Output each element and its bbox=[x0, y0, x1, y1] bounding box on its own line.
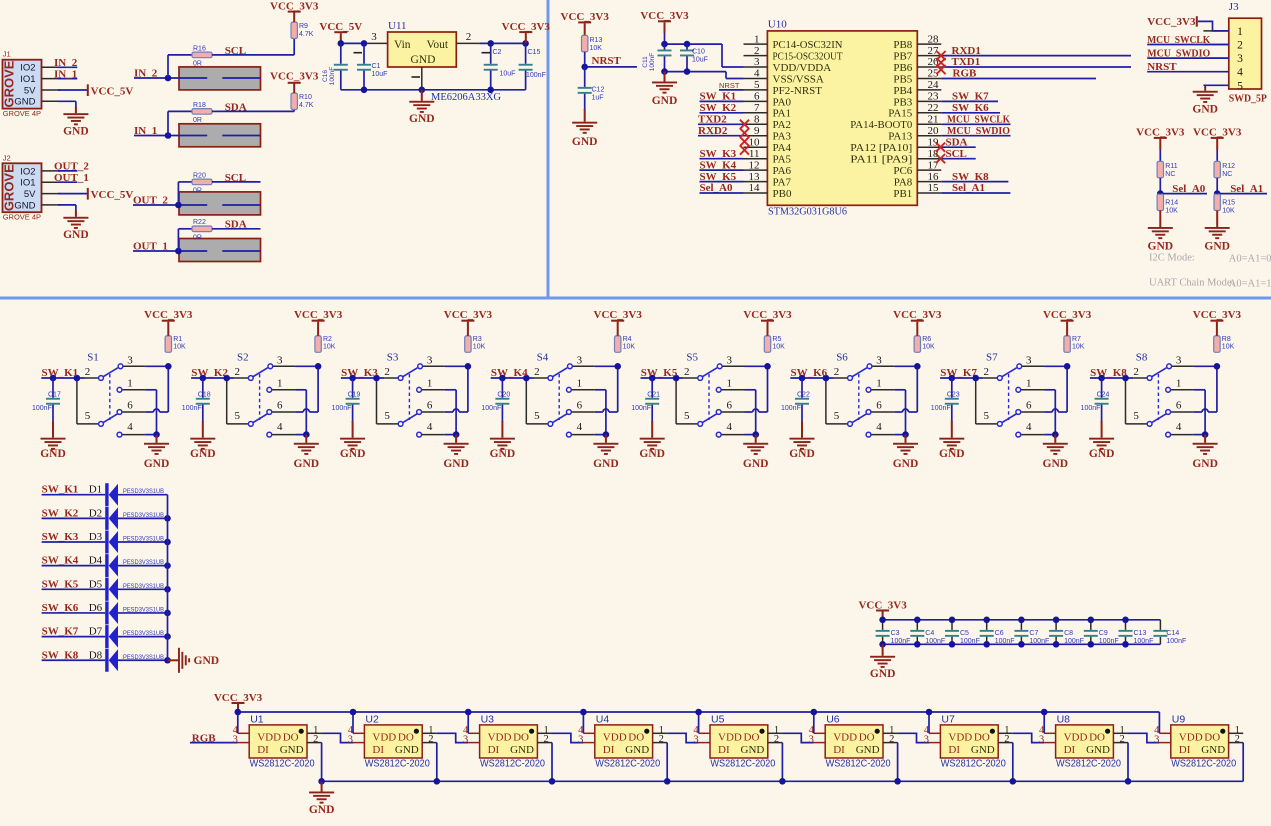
svg-text:GND: GND bbox=[409, 113, 435, 125]
svg-text:100nF: 100nF bbox=[781, 405, 801, 412]
resistor R8 10K bbox=[1214, 336, 1220, 352]
svg-text:VCC_3V3: VCC_3V3 bbox=[1147, 16, 1196, 28]
svg-text:2: 2 bbox=[684, 366, 690, 378]
svg-text:2: 2 bbox=[754, 45, 760, 57]
wire VDD bbox=[665, 43, 723, 45]
svg-text:10K: 10K bbox=[590, 45, 603, 52]
power VCC_3V3 at R6 bbox=[916, 322, 918, 336]
svg-text:GND: GND bbox=[743, 458, 769, 470]
wire VSS bbox=[665, 71, 727, 73]
junction OUT_1 bbox=[175, 248, 182, 255]
pin GND of U11 bbox=[421, 67, 423, 90]
capacitor C18 100nF bbox=[202, 378, 204, 398]
svg-text:U6: U6 bbox=[826, 714, 840, 726]
capacitor C9 100nF bbox=[1090, 620, 1092, 630]
svg-text:GND: GND bbox=[572, 136, 598, 148]
pin 18 of U10 PA11 [PA9] bbox=[917, 158, 941, 160]
svg-text:12: 12 bbox=[749, 159, 760, 171]
svg-text:C16: C16 bbox=[322, 70, 329, 82]
svg-text:GND: GND bbox=[294, 458, 320, 470]
resistor R1 10K bbox=[165, 336, 171, 352]
svg-text:PC6: PC6 bbox=[893, 165, 912, 177]
svg-text:NRST: NRST bbox=[719, 81, 740, 90]
svg-text:7: 7 bbox=[754, 102, 760, 114]
connector J1 GROVE 4P bbox=[1, 50, 60, 118]
svg-text:2: 2 bbox=[1133, 366, 1139, 378]
svg-text:PA0: PA0 bbox=[773, 96, 792, 108]
svg-text:100nF: 100nF bbox=[1134, 638, 1154, 645]
wire VCC to U1 bbox=[237, 712, 239, 733]
svg-text:10K: 10K bbox=[473, 344, 486, 351]
svg-text:6: 6 bbox=[127, 400, 133, 412]
svg-text:R20: R20 bbox=[193, 172, 206, 179]
led U6 WS2812C-2020 bbox=[809, 725, 898, 770]
svg-text:1: 1 bbox=[277, 377, 283, 389]
svg-text:UART Chain Mode:: UART Chain Mode: bbox=[1149, 278, 1235, 289]
ground at S3 pin4 bbox=[455, 435, 457, 443]
wire VCC to U7 bbox=[928, 712, 930, 733]
wire U2 GND down bbox=[436, 743, 438, 782]
svg-text:J2: J2 bbox=[3, 153, 11, 162]
ground at S2 pin4 bbox=[305, 435, 307, 443]
svg-text:R18: R18 bbox=[193, 102, 206, 109]
svg-text:R4: R4 bbox=[623, 336, 632, 343]
svg-text:24: 24 bbox=[928, 79, 940, 91]
wire U5 GND down bbox=[781, 743, 783, 782]
diode D8 PESD3V3S1UB bbox=[105, 649, 118, 672]
svg-text:10uF: 10uF bbox=[500, 71, 516, 78]
junction C8 bbox=[1053, 617, 1060, 624]
pin 5 of U10 PF2-NRST bbox=[744, 89, 768, 91]
svg-text:J3: J3 bbox=[1229, 1, 1239, 13]
wire SW_K1 to D1 bbox=[42, 494, 106, 496]
svg-text:1: 1 bbox=[1026, 377, 1032, 389]
wire D5 anode bbox=[118, 588, 168, 590]
ground at S7 pin4 bbox=[1054, 435, 1056, 443]
junction D6 bbox=[164, 610, 171, 617]
svg-text:PA1: PA1 bbox=[773, 108, 792, 120]
power VCC_3V3 at R7 bbox=[1066, 322, 1068, 336]
resistor R18 0R bbox=[192, 109, 212, 115]
resistor R6 10K bbox=[914, 336, 920, 352]
svg-text:0R: 0R bbox=[193, 188, 202, 195]
wire U8 GND down bbox=[1127, 743, 1129, 782]
wire D6 anode bbox=[118, 612, 168, 614]
svg-text:16: 16 bbox=[928, 171, 940, 183]
wire NRST bbox=[719, 89, 744, 91]
svg-text:U7: U7 bbox=[941, 714, 955, 726]
svg-text:GND: GND bbox=[190, 448, 216, 460]
jumper pad IN_2 bbox=[179, 67, 261, 90]
svg-text:S2: S2 bbox=[237, 352, 249, 364]
svg-text:4: 4 bbox=[1237, 67, 1243, 79]
pin 2 of U11 bbox=[456, 42, 479, 44]
led U4 WS2812C-2020 bbox=[578, 725, 667, 770]
svg-text:GND: GND bbox=[593, 458, 619, 470]
resistor R10 4.7K bbox=[291, 93, 297, 109]
svg-text:PA5: PA5 bbox=[773, 154, 792, 166]
power VCC_3V3 at R3 bbox=[467, 322, 469, 336]
led U1 WS2812C-2020 bbox=[233, 725, 322, 770]
svg-text:100nF: 100nF bbox=[891, 638, 911, 645]
wire Sel_A1 bbox=[1217, 193, 1267, 195]
svg-text:VCC_3V3: VCC_3V3 bbox=[640, 10, 689, 22]
wire NRST bbox=[585, 66, 637, 68]
svg-text:100nF: 100nF bbox=[960, 638, 980, 645]
wire J2 GND bbox=[58, 204, 76, 206]
svg-text:STM32G031G8U6: STM32G031G8U6 bbox=[768, 205, 847, 217]
power VCC_3V3 at R2 bbox=[317, 322, 319, 336]
svg-text:GND: GND bbox=[893, 458, 919, 470]
svg-text:R10: R10 bbox=[299, 94, 312, 101]
svg-text:PA13: PA13 bbox=[888, 131, 913, 143]
svg-text:D7: D7 bbox=[89, 626, 103, 638]
svg-text:VCC_5V: VCC_5V bbox=[91, 189, 134, 201]
pin 4 of J3 bbox=[1203, 71, 1228, 73]
svg-text:6: 6 bbox=[1026, 400, 1032, 412]
svg-text:A0=A1=1: A0=A1=1 bbox=[1229, 279, 1271, 290]
pin 12 of U10 PA6 bbox=[744, 169, 768, 171]
svg-text:VCC_3V3: VCC_3V3 bbox=[144, 309, 193, 321]
svg-text:4: 4 bbox=[1026, 421, 1032, 433]
wire TXD1 bbox=[941, 66, 1131, 68]
svg-text:U1: U1 bbox=[250, 714, 264, 726]
svg-text:6: 6 bbox=[277, 400, 283, 412]
pin 3 of U10 VDD/VDDA bbox=[744, 66, 768, 68]
svg-text:GND: GND bbox=[490, 448, 516, 460]
resistor R14 10K bbox=[1157, 194, 1163, 210]
wire OUT_1 bbox=[133, 250, 207, 252]
svg-text:PA11 [PA9]: PA11 [PA9] bbox=[850, 154, 912, 166]
resistor R11 NC bbox=[1157, 161, 1163, 177]
svg-text:NC: NC bbox=[1222, 171, 1232, 178]
svg-text:SW_K3: SW_K3 bbox=[341, 367, 378, 379]
svg-text:0R: 0R bbox=[193, 61, 202, 68]
capacitor C20 100nF bbox=[501, 378, 503, 398]
switch S7 bbox=[940, 363, 1070, 438]
svg-text:GND: GND bbox=[411, 54, 436, 66]
wire Sel_A0 bbox=[700, 192, 744, 194]
svg-text:1: 1 bbox=[1176, 377, 1182, 389]
svg-text:C11: C11 bbox=[642, 56, 649, 68]
pin 2 of U10 PC15-OSC32OUT bbox=[744, 55, 768, 57]
svg-text:VCC_3V3: VCC_3V3 bbox=[594, 309, 643, 321]
ground at S4 pin4 bbox=[605, 435, 607, 443]
svg-text:I2C Mode:: I2C Mode: bbox=[1149, 252, 1195, 263]
resistor R22 0R bbox=[192, 226, 212, 232]
svg-text:OUT_2: OUT_2 bbox=[54, 161, 89, 173]
capacitor C22 100nF bbox=[801, 378, 803, 398]
svg-text:4: 4 bbox=[577, 421, 583, 433]
ground at J1 bbox=[75, 107, 77, 113]
svg-text:C10: C10 bbox=[692, 49, 705, 56]
wire Vout rail bbox=[479, 42, 525, 44]
svg-text:10K: 10K bbox=[1222, 344, 1235, 351]
svg-text:100nF: 100nF bbox=[1099, 638, 1119, 645]
svg-text:15: 15 bbox=[928, 182, 940, 194]
ground at S1 pin4 bbox=[156, 435, 158, 443]
switch S6 bbox=[790, 363, 920, 438]
svg-text:GND: GND bbox=[1192, 458, 1218, 470]
svg-text:GND: GND bbox=[63, 126, 89, 138]
svg-text:C3: C3 bbox=[891, 630, 900, 637]
junction C3 bbox=[879, 617, 886, 624]
diode D4 PESD3V3S1UB bbox=[105, 554, 118, 577]
svg-text:PA7: PA7 bbox=[773, 177, 792, 189]
svg-text:100nF: 100nF bbox=[332, 405, 352, 412]
wire Sel_A1 bbox=[941, 192, 1010, 194]
wire SW_K3 bbox=[700, 158, 744, 160]
svg-text:23: 23 bbox=[928, 91, 940, 103]
wire RGB to U1 bbox=[190, 742, 238, 744]
svg-text:5: 5 bbox=[1237, 80, 1243, 92]
svg-text:4: 4 bbox=[726, 421, 732, 433]
pin 11 of U10 PA5 bbox=[744, 158, 768, 160]
wire VCC_3V3 to J3 pin1 bbox=[1198, 21, 1229, 31]
svg-text:IO2: IO2 bbox=[20, 166, 35, 177]
no-connect marks pins 8-11 bbox=[740, 120, 749, 129]
junction U5 GND bbox=[779, 778, 786, 785]
pin 2 of J3 bbox=[1203, 44, 1228, 46]
svg-text:U4: U4 bbox=[596, 714, 610, 726]
svg-text:C8: C8 bbox=[1064, 630, 1073, 637]
svg-text:C2: C2 bbox=[493, 49, 502, 56]
svg-text:100nF: 100nF bbox=[32, 405, 52, 412]
svg-text:D5: D5 bbox=[89, 578, 103, 590]
svg-text:PF2-NRST: PF2-NRST bbox=[773, 85, 823, 97]
wire SW_K6 to D6 bbox=[42, 612, 106, 614]
svg-text:A0=A1=0: A0=A1=0 bbox=[1229, 253, 1271, 264]
svg-text:VCC_3V3: VCC_3V3 bbox=[502, 21, 551, 33]
ground at C19 bbox=[352, 421, 354, 438]
capacitor C13 100nF bbox=[1125, 620, 1127, 630]
switch S5 bbox=[641, 363, 771, 438]
diode D2 PESD3V3S1UB bbox=[105, 507, 118, 530]
pin 13 of U10 PA7 bbox=[744, 181, 768, 183]
svg-text:GND: GND bbox=[40, 448, 66, 460]
wire J2 IO1 to OUT_1 bbox=[58, 181, 77, 183]
led U7 WS2812C-2020 bbox=[924, 725, 1013, 770]
svg-text:1: 1 bbox=[1237, 26, 1243, 38]
wire SW_K5 bbox=[700, 181, 744, 183]
svg-text:4: 4 bbox=[127, 421, 133, 433]
capacitor C6 100nF bbox=[986, 620, 988, 630]
wire IN_2 bbox=[134, 77, 207, 79]
capacitor C21 100nF bbox=[651, 378, 653, 398]
svg-text:C20: C20 bbox=[497, 392, 510, 399]
pin 16 of U10 PA8 bbox=[917, 181, 941, 183]
svg-text:R14: R14 bbox=[1165, 200, 1178, 207]
wire J2 5V bbox=[58, 193, 87, 195]
ground at C21 bbox=[651, 421, 653, 438]
svg-text:4.7K: 4.7K bbox=[299, 102, 314, 109]
wire U8 DO to U9 DI bbox=[1128, 733, 1159, 742]
pin 7 of U10 PA1 bbox=[744, 112, 768, 114]
led U9 WS2812C-2020 bbox=[1154, 725, 1243, 770]
switch S3 bbox=[341, 363, 471, 438]
wire J1 5V bbox=[58, 89, 87, 91]
wire VCC to U4 bbox=[582, 712, 584, 733]
svg-text:11: 11 bbox=[749, 148, 760, 160]
switch S1 bbox=[41, 363, 171, 438]
svg-text:3: 3 bbox=[876, 355, 882, 367]
svg-text:SW_K2: SW_K2 bbox=[191, 367, 228, 379]
capacitor C19 100nF bbox=[352, 378, 354, 398]
svg-text:10K: 10K bbox=[173, 344, 186, 351]
svg-text:U11: U11 bbox=[388, 20, 407, 32]
capacitor C11 100nF bbox=[664, 44, 666, 49]
svg-text:C23: C23 bbox=[947, 392, 960, 399]
wire SDA bbox=[941, 146, 975, 148]
svg-text:1: 1 bbox=[726, 377, 732, 389]
pin 10 of U10 PA4 bbox=[744, 146, 768, 148]
wire U4 GND down bbox=[666, 743, 668, 782]
wire U2 DO to U3 DI bbox=[437, 733, 468, 742]
junction C7 bbox=[1018, 617, 1025, 624]
wire SCL from R16 to R9 bbox=[212, 54, 294, 56]
diode D7 PESD3V3S1UB bbox=[105, 625, 118, 648]
wire OUT_2 to R20 bbox=[177, 182, 179, 205]
capacitor C14 100nF bbox=[1153, 630, 1167, 637]
wire VCC to U6 bbox=[813, 712, 815, 733]
svg-text:NRST: NRST bbox=[592, 55, 622, 67]
led U2 WS2812C-2020 bbox=[348, 725, 437, 770]
svg-text:PA15: PA15 bbox=[888, 108, 913, 120]
svg-text:GND: GND bbox=[870, 668, 896, 680]
svg-text:R6: R6 bbox=[922, 336, 931, 343]
capacitor C12 1uF bbox=[584, 67, 586, 87]
ground at U11 bbox=[421, 90, 423, 101]
svg-text:PB8: PB8 bbox=[893, 39, 912, 51]
svg-text:ME6206A33XG: ME6206A33XG bbox=[431, 92, 501, 103]
ground at C24 bbox=[1101, 421, 1103, 438]
wire cap bank bottom rail bbox=[883, 643, 1161, 645]
wire cap bank top rail bbox=[883, 619, 1161, 621]
ground at S8 pin4 bbox=[1204, 435, 1206, 443]
wire U1 DO to U2 DI bbox=[322, 733, 353, 742]
pin 4 of U10 VSS/VSSA bbox=[744, 78, 768, 80]
power VCC_3V3 at R8 bbox=[1216, 322, 1218, 336]
power VCC_5V at J1 bbox=[87, 84, 89, 96]
diode D1 PESD3V3S1UB bbox=[105, 483, 118, 506]
svg-text:SW_K4: SW_K4 bbox=[491, 367, 528, 379]
wire OUT_1 to R22 bbox=[177, 229, 179, 251]
pin 21 of U10 PA14-BOOT0 bbox=[917, 123, 941, 125]
led U5 WS2812C-2020 bbox=[693, 725, 782, 770]
svg-text:R1: R1 bbox=[173, 336, 182, 343]
wire J1 IO2 to IN_2 bbox=[58, 66, 77, 68]
svg-text:100nF: 100nF bbox=[481, 405, 501, 412]
svg-text:U3: U3 bbox=[481, 714, 495, 726]
connector J2 GROVE 4P bbox=[1, 153, 60, 221]
wire D8 anode bbox=[118, 659, 168, 661]
junction C4 bbox=[914, 617, 921, 624]
svg-text:6: 6 bbox=[1176, 400, 1182, 412]
svg-text:GND: GND bbox=[1089, 448, 1115, 460]
diode D3 PESD3V3S1UB bbox=[105, 531, 118, 554]
svg-text:R8: R8 bbox=[1222, 336, 1231, 343]
junction U7 GND bbox=[1010, 778, 1017, 785]
svg-text:5: 5 bbox=[85, 410, 91, 422]
svg-text:100nF: 100nF bbox=[182, 405, 202, 412]
wire LED VCC rail bbox=[238, 711, 1160, 713]
ground at LED chain bbox=[321, 781, 323, 791]
wire U6 GND down bbox=[897, 743, 899, 782]
pin 9 of U10 PA3 bbox=[744, 135, 768, 137]
svg-text:4.7K: 4.7K bbox=[299, 31, 314, 38]
svg-text:VCC_3V3: VCC_3V3 bbox=[1193, 127, 1242, 139]
svg-text:PB3: PB3 bbox=[893, 96, 912, 108]
capacitor C5 100nF bbox=[951, 620, 953, 630]
svg-text:PB6: PB6 bbox=[893, 62, 912, 74]
resistor R3 10K bbox=[465, 336, 471, 352]
wire MCU_SWDIO to J3 bbox=[1147, 57, 1229, 59]
svg-text:D6: D6 bbox=[89, 602, 103, 614]
svg-text:VCC_3V3: VCC_3V3 bbox=[270, 70, 319, 82]
svg-text:C17: C17 bbox=[48, 392, 61, 399]
svg-text:R9: R9 bbox=[299, 23, 308, 30]
resistor R2 10K bbox=[315, 336, 321, 352]
diode D5 PESD3V3S1UB bbox=[105, 578, 118, 601]
svg-text:5V: 5V bbox=[24, 189, 36, 200]
svg-text:10uF: 10uF bbox=[692, 57, 708, 64]
svg-text:SW_K1: SW_K1 bbox=[42, 367, 79, 379]
svg-text:R22: R22 bbox=[193, 219, 206, 226]
svg-text:R15: R15 bbox=[1222, 200, 1235, 207]
regulator U11 ME6206A33XG bbox=[366, 42, 388, 44]
svg-text:5V: 5V bbox=[24, 85, 36, 96]
svg-text:3: 3 bbox=[1237, 53, 1243, 65]
jumper pad IN_1 bbox=[179, 124, 261, 147]
ground at C23 bbox=[951, 421, 953, 438]
connector J3 SWD_5P bbox=[1229, 18, 1262, 89]
svg-text:D1: D1 bbox=[89, 484, 102, 496]
svg-text:100nF: 100nF bbox=[1081, 405, 1101, 412]
svg-text:GND: GND bbox=[1204, 241, 1230, 253]
svg-text:2: 2 bbox=[984, 366, 990, 378]
svg-text:NC: NC bbox=[1165, 171, 1175, 178]
jumper pad OUT_1 bbox=[179, 239, 261, 262]
svg-text:S5: S5 bbox=[686, 352, 698, 364]
junction U6 GND bbox=[894, 778, 901, 785]
svg-text:S3: S3 bbox=[387, 352, 399, 364]
switch S4 bbox=[491, 363, 621, 438]
wire U1 GND down bbox=[321, 743, 323, 782]
svg-text:2: 2 bbox=[1237, 40, 1243, 52]
svg-text:GND: GND bbox=[443, 458, 469, 470]
pin 15 of U10 PB1 bbox=[917, 192, 941, 194]
svg-text:2: 2 bbox=[834, 366, 840, 378]
wire SDA from R22 bbox=[212, 228, 261, 230]
wire VCC to U8 bbox=[1043, 712, 1045, 733]
svg-text:PA8: PA8 bbox=[894, 177, 913, 189]
wire Sel_A0 bbox=[1160, 193, 1207, 195]
junction D5 bbox=[164, 586, 171, 593]
capacitor C17 100nF bbox=[52, 378, 54, 398]
svg-text:VCC_3V3: VCC_3V3 bbox=[1136, 127, 1185, 139]
svg-text:R16: R16 bbox=[193, 45, 206, 52]
svg-text:10K: 10K bbox=[1072, 344, 1085, 351]
svg-text:VDD/VDDA: VDD/VDDA bbox=[773, 62, 832, 74]
svg-text:1: 1 bbox=[127, 377, 133, 389]
svg-text:U5: U5 bbox=[711, 714, 725, 726]
svg-text:10: 10 bbox=[749, 136, 761, 148]
ground rail under U11 bbox=[341, 89, 526, 91]
svg-text:D3: D3 bbox=[89, 531, 103, 543]
no-connect marks pins 19-18 bbox=[936, 143, 945, 152]
svg-text:4: 4 bbox=[277, 421, 283, 433]
svg-text:GROVE 4P: GROVE 4P bbox=[3, 212, 41, 221]
